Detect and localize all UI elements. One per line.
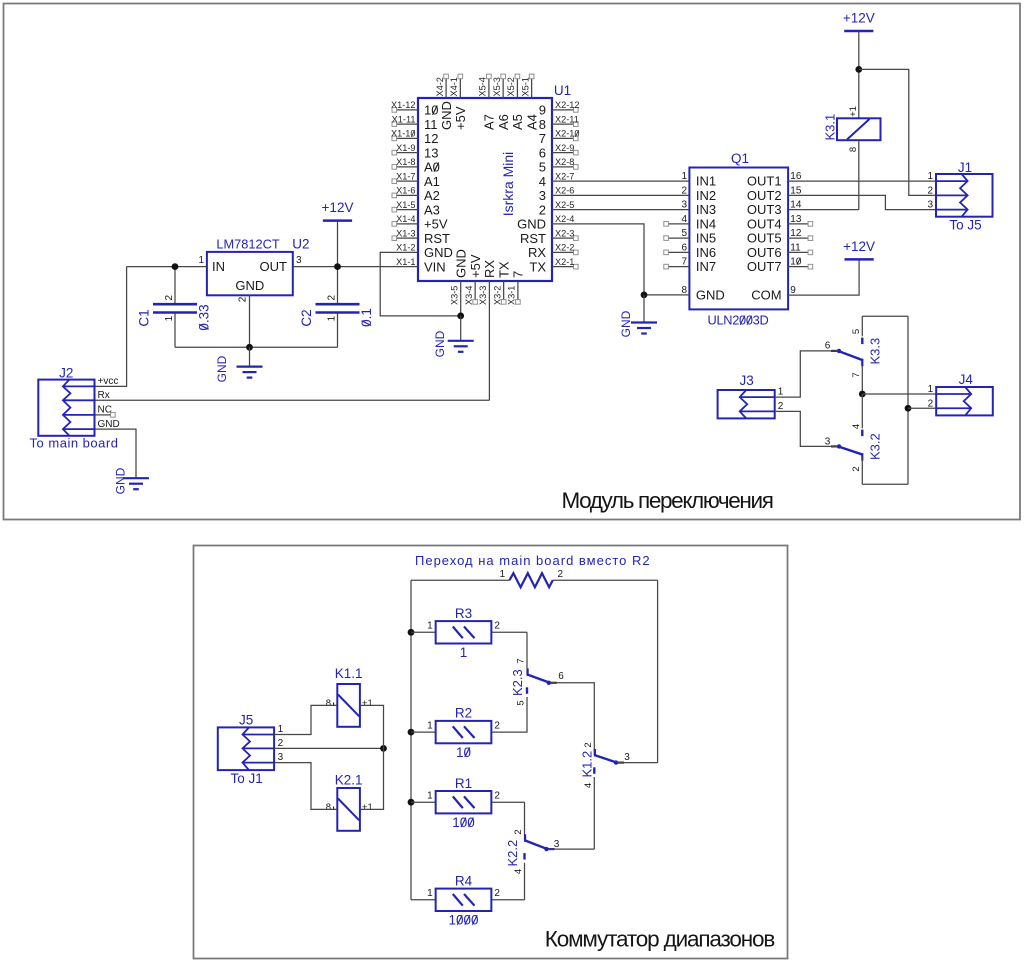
svg-text:R4: R4 [455, 873, 473, 888]
svg-text:3: 3 [278, 752, 284, 763]
svg-text:X2-5: X2-5 [555, 200, 574, 210]
Q1 IN7 stub [664, 257, 690, 269]
svg-text:5: 5 [681, 228, 687, 239]
U1 pin X1-2 label [396, 243, 415, 253]
svg-text:5: 5 [539, 160, 546, 175]
R1 leads [411, 801, 525, 803]
svg-text:X2-2: X2-2 [555, 243, 574, 253]
svg-text:K1.2: K1.2 [580, 751, 595, 778]
IC Q1 ULN2003D body [689, 151, 788, 328]
svg-text:GND: GND [235, 278, 264, 293]
R4 leads [411, 899, 525, 901]
svg-text:Коммутатор диапазонов: Коммутатор диапазонов [545, 927, 775, 952]
svg-text:1: 1 [427, 720, 433, 731]
svg-text:16: 16 [790, 171, 802, 182]
Q1 IN5 stub [664, 228, 690, 240]
svg-text:1: 1 [164, 315, 175, 321]
wire K3.3/K3.2 loop [862, 316, 908, 484]
svg-text:GND: GND [114, 467, 128, 494]
U1 pin X4-1 stub [449, 74, 468, 130]
svg-text:4: 4 [851, 424, 862, 429]
voltage regulator U2 LM7812CT [198, 237, 309, 303]
wire +12V branch to J1 pin2 [859, 69, 936, 195]
wire Q1 OUT1 to J1 pin1 [788, 171, 936, 182]
switch contact K2.3 [510, 668, 557, 696]
svg-text:2: 2 [851, 466, 862, 471]
svg-text:OUT3: OUT3 [747, 202, 782, 217]
note: Переход на main board вместо R2 [415, 553, 651, 568]
wire U1 to Q1 IN3 [552, 200, 689, 211]
U1 pin X2-1 stub [552, 257, 578, 269]
svg-text:X1-5: X1-5 [396, 200, 415, 210]
svg-text:X1-4: X1-4 [396, 214, 415, 224]
svg-text:OUT4: OUT4 [747, 216, 782, 231]
Q1 IN6 stub [664, 242, 690, 254]
svg-text:6: 6 [681, 242, 687, 253]
svg-text:+12V: +12V [843, 239, 875, 254]
svg-text:To J5: To J5 [949, 218, 981, 233]
K1.2 pin labels [583, 742, 630, 788]
svg-text:A0: A0 [424, 160, 440, 175]
svg-text:A5: A5 [510, 114, 525, 130]
svg-text:+12V: +12V [322, 200, 354, 215]
svg-text:6: 6 [539, 145, 546, 160]
svg-text:2: 2 [681, 185, 687, 196]
wire U1 to Q1 IN1 [552, 171, 689, 182]
svg-text:RST: RST [520, 231, 546, 246]
svg-text:OUT2: OUT2 [747, 188, 782, 203]
svg-text:C2: C2 [299, 309, 314, 326]
svg-text:X5-4: X5-4 [478, 77, 488, 96]
connector J3 [718, 373, 784, 418]
capacitor C2 0.1 [299, 294, 374, 326]
svg-text:Модуль переключения: Модуль переключения [561, 488, 772, 513]
svg-text:K2.2: K2.2 [505, 840, 520, 867]
wire K3.2 pin2 lead [861, 457, 863, 485]
U1 pin X1-6 stub [392, 186, 418, 198]
svg-text:GND: GND [424, 245, 453, 260]
svg-text:X1-6: X1-6 [396, 186, 415, 196]
svg-text:OUT5: OUT5 [747, 231, 782, 246]
svg-text:U2: U2 [292, 237, 309, 252]
connector J2 (To main board) [30, 366, 120, 451]
wire J5 pin1 to K1.1 [274, 705, 337, 734]
svg-text:13: 13 [790, 214, 802, 225]
svg-text:7: 7 [511, 271, 526, 278]
Q1 OUT7 stub [788, 257, 813, 269]
svg-text:3: 3 [296, 255, 302, 266]
top schematic frame [4, 4, 1021, 520]
U1 pin X2-10 stub [552, 129, 580, 141]
svg-text:7: 7 [681, 257, 687, 268]
svg-text:IN1: IN1 [696, 174, 716, 189]
svg-text:X4-1: X4-1 [449, 77, 459, 96]
svg-text:GND: GND [433, 330, 447, 357]
svg-text:3: 3 [927, 200, 933, 211]
U1 pin X2-3 stub [552, 228, 578, 240]
svg-text:K3.3: K3.3 [868, 338, 883, 365]
wire K1.2 pin4 lead [593, 777, 595, 849]
title: Коммутатор диапазонов [545, 927, 775, 952]
svg-text:OUT: OUT [260, 259, 288, 274]
svg-text:A3: A3 [424, 202, 440, 217]
U1 pin X3-1 [507, 271, 526, 305]
svg-text:9: 9 [790, 285, 796, 296]
svg-text:A6: A6 [496, 114, 511, 130]
svg-text:X4-2: X4-2 [435, 77, 445, 96]
relay coil K3.1 [823, 106, 881, 152]
wire Q1 COM to +12V [788, 259, 859, 296]
wire K2.3 pin5 to R2 [491, 697, 527, 732]
wire K2.2 common to K1.2 pin4 [549, 848, 595, 850]
wire U1 to Q1 IN2 [552, 185, 689, 196]
wire coil commons vertical [360, 705, 384, 809]
svg-text:X3-5: X3-5 [450, 286, 460, 305]
svg-text:GND: GND [439, 101, 454, 130]
svg-text:1: 1 [681, 171, 687, 182]
svg-text:7: 7 [516, 658, 527, 663]
svg-text:3: 3 [539, 188, 546, 203]
wire J5 pin3 to K2.1 [274, 763, 337, 810]
svg-text:15: 15 [790, 185, 802, 196]
svg-text:RX: RX [528, 245, 546, 260]
svg-text:GND: GND [454, 249, 469, 278]
junction dots U2 area [172, 263, 341, 350]
svg-text:10: 10 [456, 745, 471, 760]
svg-text:X1-3: X1-3 [396, 228, 415, 238]
svg-text:K2.3: K2.3 [510, 669, 525, 696]
switch contact K1.2 [580, 749, 625, 778]
svg-text:X2-12: X2-12 [555, 100, 580, 110]
svg-text:11: 11 [424, 117, 438, 132]
resistor R2 value 10 [427, 706, 500, 760]
svg-text:3: 3 [681, 200, 687, 211]
wire C1 leads [174, 267, 176, 348]
svg-text:R3: R3 [455, 606, 472, 621]
U1 pin X5-3 stub [492, 74, 511, 130]
power +12V (COM) [843, 239, 875, 260]
svg-text:To J1: To J1 [231, 771, 263, 786]
svg-text:2: 2 [778, 401, 784, 412]
U1 pin X1-9 stub [392, 143, 418, 155]
svg-text:4: 4 [539, 174, 546, 189]
svg-text:IN: IN [212, 259, 225, 274]
svg-text:2: 2 [326, 294, 337, 300]
Q1 IN4 stub [664, 214, 690, 226]
wire U1 GND X1-2 route [380, 252, 461, 316]
svg-text:X1-10: X1-10 [391, 129, 416, 139]
wire K3.3 pin7 lead [861, 361, 863, 394]
U1 pin X3-3 [478, 260, 497, 305]
Q1 OUT4 stub [788, 214, 813, 226]
svg-text:X1-9: X1-9 [396, 143, 415, 153]
U1 pin X2-4 label [555, 214, 574, 224]
U1 pin X5-4 stub [478, 74, 497, 130]
svg-text:J1: J1 [958, 160, 972, 175]
svg-text:OUT7: OUT7 [747, 259, 782, 274]
svg-text:X2-10: X2-10 [555, 129, 580, 139]
svg-text:4: 4 [583, 783, 594, 788]
svg-text:1: 1 [427, 791, 433, 802]
K2.2 contact 4 tip [523, 853, 525, 860]
wire U2 OUT to U1 VIN [293, 266, 418, 268]
resistor (переход) zigzag [411, 569, 658, 587]
svg-text:A2: A2 [424, 188, 440, 203]
svg-text:1: 1 [278, 724, 284, 735]
svg-text:3: 3 [554, 839, 560, 850]
U1 pin X1-12 stub [391, 100, 418, 112]
U1 pin X3-2 [492, 261, 511, 305]
svg-text:RST: RST [424, 231, 450, 246]
svg-text:X2-1: X2-1 [555, 257, 574, 267]
svg-text:2: 2 [928, 398, 934, 409]
svg-text:X3-3: X3-3 [478, 286, 488, 305]
switch contact K3.3 [831, 338, 883, 366]
wire U1 X3-5 GND lead [457, 281, 464, 319]
wire right side down to K1.2 [657, 580, 659, 762]
connector J4 [928, 372, 993, 415]
connector J1 (To J5) [927, 160, 992, 233]
svg-text:To main board: To main board [30, 436, 119, 451]
U1 pin X5-1 stub [520, 74, 539, 130]
wire J2 GND down [95, 429, 137, 478]
svg-text:7: 7 [539, 131, 546, 146]
U1 pin X2-12 stub [552, 100, 580, 112]
resistor R4 value 1000 [427, 873, 500, 927]
svg-text:+1: +1 [362, 802, 373, 813]
svg-text:X1-7: X1-7 [396, 171, 415, 181]
svg-text:6: 6 [558, 671, 564, 682]
svg-text:J2: J2 [59, 366, 73, 381]
svg-text:4: 4 [513, 869, 524, 874]
connector J5 (To J1) [218, 712, 284, 786]
K2.3 pin labels [516, 658, 565, 705]
svg-text:X2-8: X2-8 [555, 157, 574, 167]
wire C2 leads / +12V drop [337, 221, 339, 348]
svg-text:2: 2 [237, 296, 248, 302]
svg-text:VIN: VIN [424, 259, 446, 274]
U1 pin X2-9 stub [552, 143, 578, 155]
svg-text:OUT1: OUT1 [747, 174, 782, 189]
svg-text:X1-8: X1-8 [396, 157, 415, 167]
svg-text:A4: A4 [524, 114, 539, 130]
svg-text:IN6: IN6 [696, 245, 716, 260]
svg-text:8: 8 [326, 802, 331, 813]
K3.2 pin labels [825, 424, 862, 472]
U1 pin X1-1 label [396, 257, 415, 267]
svg-text:X1-1: X1-1 [396, 257, 415, 267]
capacitor C1 0.33 [137, 294, 212, 330]
svg-text:Rx: Rx [98, 390, 110, 401]
svg-text:6: 6 [825, 341, 831, 352]
svg-text:1000: 1000 [448, 913, 478, 928]
K1.2 contact 4 tip [593, 767, 595, 774]
svg-text:GND: GND [215, 355, 229, 382]
switch contact K2.2 [505, 834, 554, 866]
svg-text:RX: RX [482, 260, 497, 278]
wire J5 pin2 to coils [274, 745, 387, 752]
svg-text:Q1: Q1 [731, 151, 749, 166]
svg-text:ULN2003D: ULN2003D [708, 313, 769, 328]
power +12V (U2 output) [322, 200, 354, 221]
Q1 OUT6 stub [788, 242, 813, 254]
svg-text:TX: TX [496, 261, 511, 278]
svg-text:K2.1: K2.1 [335, 773, 363, 788]
svg-text:GND: GND [696, 288, 725, 303]
svg-text:2: 2 [494, 888, 500, 899]
U1 pin X1-4 stub [392, 214, 418, 226]
svg-text:+5V: +5V [453, 106, 468, 130]
svg-text:+5V: +5V [468, 254, 483, 278]
relay coil K2.1 [326, 773, 373, 831]
svg-text:J3: J3 [739, 373, 753, 388]
switch contact K3.2 [831, 433, 883, 460]
U1 pin X2-7 label [555, 171, 574, 181]
svg-text:+5V: +5V [424, 217, 448, 232]
bus junction dots [408, 629, 415, 806]
wire K3.2 pin4 lead [861, 394, 863, 428]
svg-text:C1: C1 [137, 309, 152, 326]
svg-text:1: 1 [460, 645, 468, 660]
bottom schematic frame [194, 546, 788, 959]
wire K2.3 pin7 lead [526, 632, 528, 674]
svg-text:X5-2: X5-2 [506, 77, 516, 96]
wire J2 +vcc to input net [95, 267, 127, 387]
wire resistor bus [410, 580, 412, 900]
svg-text:8: 8 [539, 117, 546, 132]
svg-text:K3.2: K3.2 [868, 433, 883, 460]
wire U1 X3-3 vertical [488, 281, 490, 400]
U1 pin X2-8 stub [552, 157, 578, 169]
U1 pin X1-10 stub [391, 129, 418, 141]
svg-text:GND: GND [517, 217, 546, 232]
svg-text:X1-2: X1-2 [396, 243, 415, 253]
K3.2 contact 4 tip [861, 430, 863, 437]
svg-text:X2-6: X2-6 [555, 186, 574, 196]
wire K3.1 pin8 to OUT3 [858, 140, 860, 209]
svg-text:GND: GND [619, 310, 633, 337]
K3.3 contact 5 tip [861, 338, 863, 345]
svg-text:12: 12 [424, 131, 438, 146]
svg-text:IN2: IN2 [696, 188, 716, 203]
R3 leads [411, 631, 527, 633]
svg-text:1: 1 [427, 888, 433, 899]
svg-text:1: 1 [499, 569, 505, 580]
svg-text:IN4: IN4 [696, 216, 716, 231]
svg-text:2: 2 [927, 185, 933, 196]
svg-text:Переход на main board вместо R: Переход на main board вместо R2 [415, 553, 651, 568]
U1 pin X2-6 label [555, 186, 574, 196]
svg-text:NC: NC [98, 405, 112, 416]
svg-text:J5: J5 [239, 712, 253, 727]
wire U1 X2-4 GND to Q1 pin8 [552, 224, 689, 298]
svg-text:LM7812CT: LM7812CT [216, 237, 279, 252]
svg-text:COM: COM [751, 288, 781, 303]
svg-text:3: 3 [624, 752, 630, 763]
svg-text:+vcc: +vcc [98, 376, 119, 387]
svg-text:R2: R2 [455, 706, 472, 721]
U1 pin X2-11 stub [552, 114, 579, 126]
svg-text:0.1: 0.1 [359, 308, 374, 327]
svg-text:1: 1 [927, 171, 933, 182]
svg-text:2: 2 [513, 829, 524, 834]
wire Q1 OUT2 to J1 pin3 [788, 185, 936, 209]
U1 pin X3-5 [450, 249, 469, 305]
U1 pin X1-3 stub [392, 228, 418, 240]
svg-text:2: 2 [494, 621, 500, 632]
svg-text:X5-3: X5-3 [492, 77, 502, 96]
svg-text:11: 11 [790, 242, 801, 253]
svg-text:+12V: +12V [843, 11, 875, 26]
svg-text:8: 8 [681, 285, 687, 296]
svg-text:9: 9 [539, 103, 546, 118]
resistor R1 value 100 [427, 776, 500, 830]
svg-text:GND: GND [98, 419, 120, 430]
U1 pin X1-11 stub [392, 114, 418, 126]
svg-text:8: 8 [326, 698, 331, 709]
IC U1 Isrkra Mini body [418, 83, 571, 281]
svg-text:OUT6: OUT6 [747, 245, 782, 260]
ground (U1) [433, 316, 474, 357]
svg-text:1: 1 [326, 315, 337, 321]
svg-text:2: 2 [583, 742, 594, 747]
svg-text:X2-4: X2-4 [555, 214, 574, 224]
svg-text:1: 1 [928, 384, 934, 395]
svg-text:X1-12: X1-12 [391, 100, 416, 110]
svg-text:10: 10 [424, 103, 438, 118]
svg-text:Isrkra Mini: Isrkra Mini [500, 152, 516, 217]
svg-text:8: 8 [848, 147, 859, 152]
wire loop to J4 pin2 [905, 405, 937, 412]
U1 pin X1-8 stub [392, 157, 418, 169]
svg-text:U1: U1 [554, 83, 571, 98]
svg-text:5: 5 [516, 700, 527, 705]
ground (Q1) [619, 295, 657, 337]
svg-text:5: 5 [851, 329, 862, 334]
U1 pin X3-4 [464, 254, 483, 305]
wire K1.2 common to right side [618, 762, 658, 764]
svg-text:2: 2 [539, 202, 546, 217]
wire K2.3 common to K1.2 [551, 683, 595, 755]
title: Модуль переключения [561, 488, 772, 513]
svg-text:1: 1 [198, 255, 204, 266]
wire K2.2 pin4 lead [524, 863, 526, 900]
svg-text:J4: J4 [959, 372, 974, 387]
K2.3 contact 5 tip [526, 687, 528, 694]
svg-text:TX: TX [529, 259, 546, 274]
svg-text:X2-9: X2-9 [555, 143, 574, 153]
wire J3 pin1 to K3.3 [775, 351, 838, 397]
wire J2 Rx to U1 RX [95, 399, 490, 401]
power +12V (top right) [843, 11, 875, 32]
ground (J2) [114, 467, 150, 494]
svg-text:K3.1: K3.1 [823, 114, 838, 141]
U1 pin X5-2 stub [506, 74, 525, 130]
svg-text:IN5: IN5 [696, 231, 716, 246]
svg-text:3: 3 [825, 436, 831, 447]
svg-text:X1-11: X1-11 [392, 114, 416, 124]
U1 pin X4-2 stub [435, 74, 454, 130]
svg-text:2: 2 [558, 569, 564, 580]
wire ground rail under U2 [175, 346, 338, 348]
U1 pin X1-5 stub [392, 200, 418, 212]
wire U2 GND lead [249, 295, 251, 347]
svg-text:+1: +1 [362, 698, 373, 709]
relay coil K1.1 [326, 666, 373, 727]
svg-text:13: 13 [424, 145, 438, 160]
svg-text:X5-1: X5-1 [520, 77, 530, 96]
R2 left lead [411, 731, 436, 733]
